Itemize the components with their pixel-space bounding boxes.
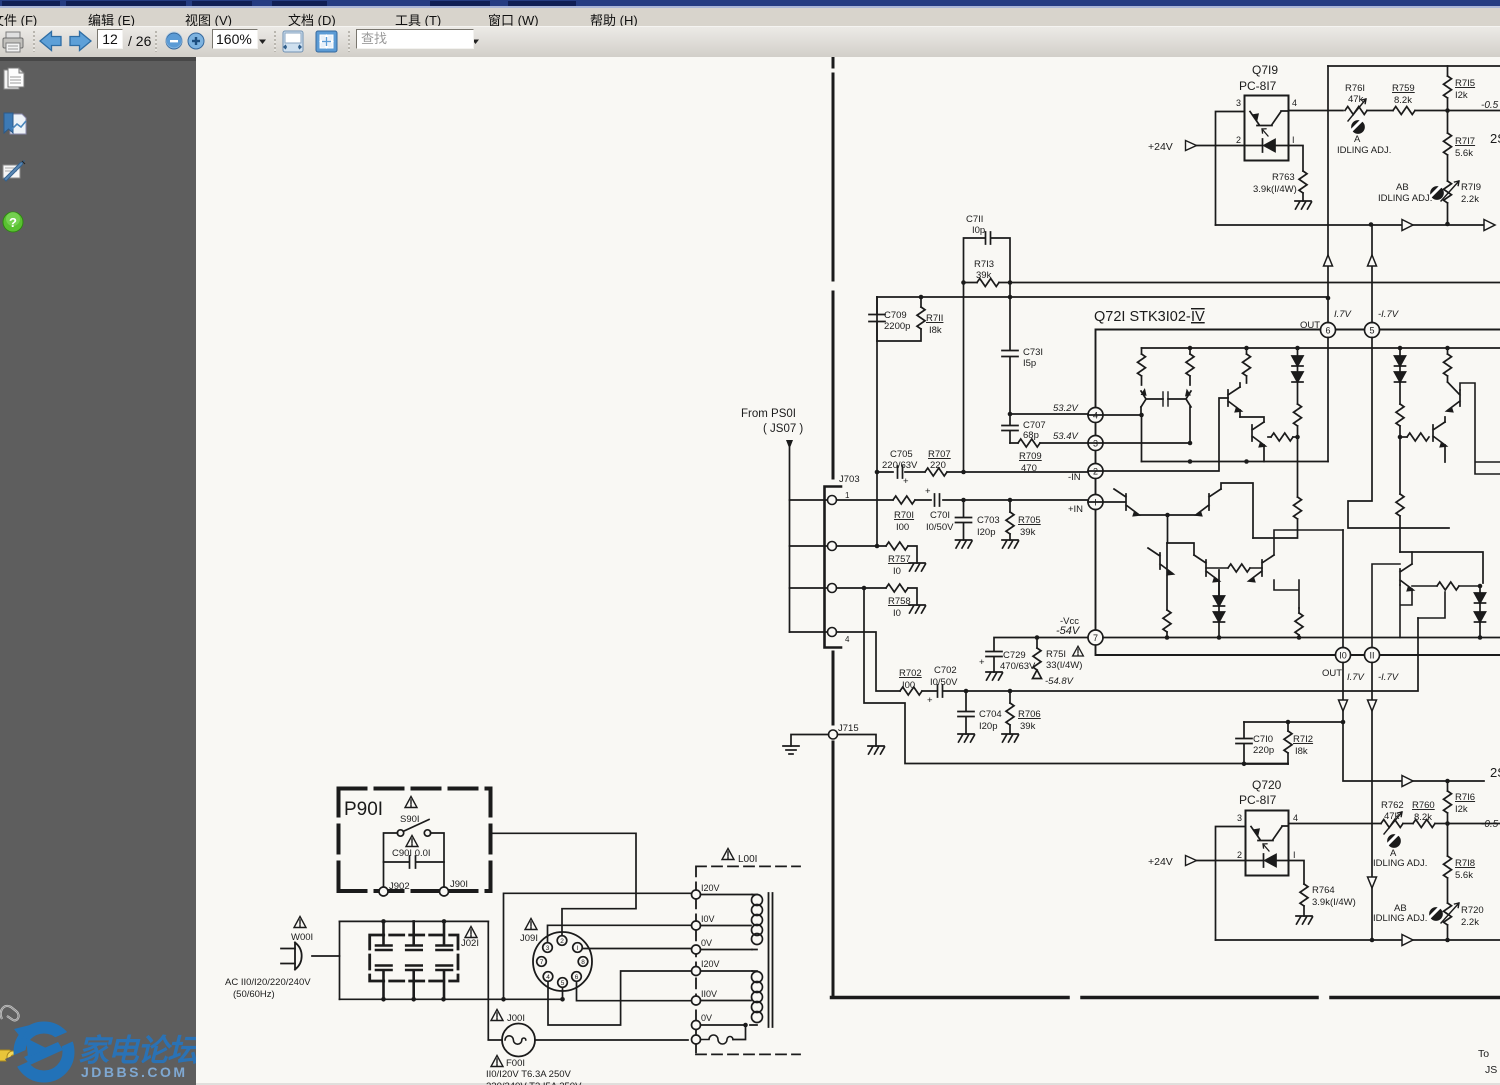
svg-text:OUT: OUT (1322, 668, 1342, 679)
svg-text:R7I8: R7I8 (1455, 858, 1475, 869)
svg-text:R757: R757 (888, 554, 911, 565)
node -Vcc label (1056, 616, 1081, 637)
svg-text:-I.7V: -I.7V (1378, 672, 1400, 683)
wire QJ collector to right edge (1460, 383, 1500, 474)
wire stub to J703-4 (790, 631, 828, 633)
svg-text:From PS0I: From PS0I (741, 408, 796, 420)
svg-text:R763: R763 (1272, 172, 1295, 183)
transistor internal QI (output right) (1249, 522, 1299, 608)
svg-text:I0/50V: I0/50V (926, 522, 954, 533)
wire J091-4 to 120V (548, 971, 692, 1025)
wire Q720 pin3 to left column (1216, 827, 1246, 941)
wire top V rail y66 (1328, 65, 1500, 67)
resistor internal R7 (bottom left) (1163, 610, 1171, 640)
svg-text:I0: I0 (893, 608, 901, 619)
resistor R712 (1284, 722, 1313, 764)
svg-text:家电论坛: 家电论坛 (78, 1033, 202, 1068)
wire switched live riser (491, 833, 637, 937)
resistor R760 (1412, 800, 1448, 828)
sidebar icon: pages (4, 68, 24, 89)
svg-text:2: 2 (560, 938, 564, 945)
svg-text:R762: R762 (1381, 800, 1404, 811)
junction at 1447.5,781 (1445, 779, 1450, 784)
connector P901 dashed box (339, 789, 491, 892)
svg-text:4: 4 (546, 974, 550, 981)
svg-text:53.4V: 53.4V (1053, 431, 1079, 442)
svg-text:5.6k: 5.6k (1455, 148, 1473, 159)
svg-text:C729: C729 (1003, 650, 1026, 661)
transistor internal QJ (1433, 382, 1460, 425)
sidebar icon: paperclip (1, 1006, 19, 1020)
prev page arrow (40, 32, 61, 51)
wire mirror bases/collectors (1088, 407, 1190, 443)
svg-text:R7I3: R7I3 (974, 259, 994, 270)
svg-text:C702: C702 (934, 665, 957, 676)
svg-text:R706: R706 (1018, 709, 1041, 720)
svg-text:C7I0: C7I0 (1253, 734, 1273, 745)
capacitor C901 (384, 848, 445, 868)
svg-text:+24V: +24V (1148, 856, 1173, 868)
junction at 1447.5,110.5 (1445, 108, 1450, 113)
junction at 921,297 (919, 295, 924, 300)
svg-text:I20V: I20V (701, 959, 720, 969)
svg-text:AC II0/I20/220/240V: AC II0/I20/220/240V (225, 977, 311, 988)
svg-text:I00: I00 (896, 522, 909, 533)
wire +24V into pin2 (1197, 145, 1263, 147)
node +24V (1148, 141, 1197, 154)
svg-text:Q72I STK3I02-: Q72I STK3I02- (1094, 309, 1191, 325)
capacitor C711 (964, 214, 1011, 282)
svg-text:I: I (1293, 850, 1296, 860)
resistor internal R1 (1138, 348, 1146, 385)
capacitor C710 (1236, 722, 1274, 764)
svg-text:R7I5: R7I5 (1455, 78, 1475, 89)
sidebar icon: bookmark/chart (4, 113, 26, 134)
pin 3 (1088, 436, 1103, 451)
pin 4 (1088, 408, 1103, 423)
svg-text:2S: 2S (1490, 765, 1500, 780)
svg-text:7: 7 (540, 959, 544, 966)
transistor internal QA (mirror left) (1141, 390, 1163, 407)
junction at 383.5,921.4 (381, 919, 386, 924)
capacitor filter cap 1 (376, 921, 392, 999)
wire cable from PS01 (789, 448, 791, 632)
junction at 1190,461.5 (1188, 459, 1193, 464)
svg-text:R75I: R75I (1046, 649, 1066, 660)
svg-text:39k: 39k (1020, 721, 1036, 732)
wire x1141 pin4 to OUT bus (1141, 415, 1143, 462)
svg-text:IDLING ADJ.: IDLING ADJ. (1373, 858, 1427, 869)
svg-text:J09I: J09I (520, 933, 538, 944)
svg-text:(50/60Hz): (50/60Hz) (233, 989, 275, 1000)
junction at 877,472 (875, 470, 880, 475)
wire filter bottom edge (340, 998, 564, 1000)
resistor R706 (1002, 691, 1041, 742)
svg-text:-0.5: -0.5 (1481, 819, 1499, 830)
wire top rail y297 (877, 296, 1010, 298)
wire R761 to R759 (1367, 110, 1393, 112)
svg-text:-I.7V: -I.7V (1378, 309, 1400, 320)
arrow below pin11 (1368, 700, 1377, 711)
resistor R716 (1444, 781, 1476, 824)
svg-text:2: 2 (1237, 850, 1242, 860)
resistor internal R8 (bottom mid) (1295, 608, 1303, 640)
capacitor C731 (1002, 347, 1043, 369)
wire y283 long to right (1010, 282, 1500, 284)
pin 5 (1365, 323, 1380, 338)
pin 6 (1321, 323, 1336, 338)
transistor Q720 labels (1239, 778, 1282, 807)
arrow below pin10 (1339, 700, 1348, 711)
svg-text:5: 5 (561, 980, 565, 987)
print icon (3, 32, 23, 52)
wire pin2 line to VAS base (1088, 398, 1228, 471)
wire pin6 internal column (1327, 338, 1329, 462)
junction at 1288,722 (1286, 720, 1291, 725)
svg-text:II0V: II0V (701, 989, 717, 999)
wire NFB staircase to right (864, 588, 1288, 764)
ground at J715 left (783, 746, 799, 754)
diode pair internal D5 D6 (1395, 346, 1406, 404)
svg-text:J90I: J90I (450, 879, 468, 890)
resistor R751 (1033, 638, 1084, 688)
fuse F001 labels (486, 1058, 582, 1085)
resistor internal R12 (base h) (1400, 433, 1433, 441)
JDBBS logo (0, 57, 220, 1085)
wire pin10 column down (1343, 663, 1484, 782)
svg-text:A: A (1354, 134, 1361, 145)
wire plug to filter (312, 955, 340, 957)
wire left vertical x877 (876, 297, 878, 546)
capacitor C703 (956, 500, 1000, 548)
wire R757 row (837, 546, 918, 563)
wire y552 link (1400, 552, 1483, 583)
resistor R718 (1444, 824, 1476, 904)
potentiometer R720 (1441, 903, 1484, 940)
left pane (0, 57, 196, 1085)
potentiometer R762 (1381, 800, 1404, 834)
transistor Q720 photo-transistor (1251, 826, 1289, 841)
svg-text:I20p: I20p (977, 527, 996, 538)
svg-text:39k: 39k (976, 270, 992, 281)
transistor internal QB (mirror right) (1163, 391, 1191, 407)
svg-text:470: 470 (1021, 463, 1037, 474)
svg-text:3.9k(I/4W): 3.9k(I/4W) (1312, 897, 1356, 908)
svg-text:I: I (1292, 135, 1295, 145)
resistor R759 (1392, 83, 1448, 115)
wire y223 bottom rail of Q719 (1216, 224, 1485, 226)
transistor Q719 photo-transistor (1250, 111, 1289, 126)
wire internal V+ rail (1142, 347, 1500, 349)
svg-text:I00: I00 (902, 680, 915, 691)
winding L001 primary (701, 895, 763, 950)
wire +IN row (837, 499, 1088, 501)
potentiometer R761 (1345, 83, 1367, 121)
resistor R713 (961, 259, 1012, 287)
svg-text:JS: JS (1485, 1064, 1497, 1076)
wire J715 left (791, 735, 829, 747)
warning S901 (405, 797, 417, 808)
resistor R715 (1444, 66, 1476, 111)
junction at 877,546 (875, 544, 880, 549)
capacitor filter cap 2 (406, 921, 422, 999)
wire C710 bracket top (1244, 721, 1343, 723)
wire diff right base up (1221, 480, 1253, 538)
svg-text:R702: R702 (899, 668, 922, 679)
svg-text:+IN: +IN (1068, 504, 1083, 515)
pin 10 (1336, 648, 1351, 663)
zoom out button (166, 33, 182, 49)
pin 7 (1088, 630, 1103, 645)
capacitor C707 (1002, 412, 1046, 443)
transistor internal QE (diff pair left) (1088, 480, 1139, 516)
svg-text:I20p: I20p (979, 721, 998, 732)
transistor internal QF (diff pair right) (1196, 489, 1221, 516)
svg-text:AB: AB (1396, 182, 1409, 193)
terminals (692, 890, 701, 899)
warning F001 (491, 1056, 503, 1067)
resistor R711 (877, 297, 943, 341)
resistor internal R11 (1444, 346, 1452, 382)
resistor R764 (1296, 884, 1356, 924)
wire y940 bottom rail (1216, 939, 1500, 941)
svg-text:220/240V T3.I5A 250V: 220/240V T3.I5A 250V (486, 1081, 582, 1085)
wire switch to J901 (431, 833, 445, 887)
svg-text:I2k: I2k (1455, 804, 1468, 815)
svg-text:PC-8I7: PC-8I7 (1239, 79, 1277, 93)
svg-text:39k: 39k (1020, 527, 1036, 538)
arrow on y225 rail (1402, 220, 1413, 231)
svg-text:( JS07 ): ( JS07 ) (763, 423, 803, 435)
svg-text:2200p: 2200p (884, 321, 910, 332)
svg-text:II0/I20V T6.3A 250V: II0/I20V T6.3A 250V (486, 1069, 572, 1080)
junction at 413.7,999.3 (411, 997, 416, 1002)
wire switch to J902 (384, 833, 398, 887)
svg-text:J02I: J02I (461, 938, 479, 949)
junction at 963.5,472 (961, 470, 966, 475)
fit width icon (283, 31, 303, 52)
svg-text:+: + (979, 657, 985, 668)
svg-text:I.7V: I.7V (1347, 672, 1366, 683)
capacitor C729 (979, 650, 1036, 680)
svg-text:J902: J902 (389, 881, 410, 892)
junction at 1010,297 (1008, 295, 1013, 300)
connector J091 (520, 919, 592, 992)
resistor R702 (899, 668, 922, 695)
svg-text:220: 220 (930, 460, 946, 471)
wire pin4 to R761 rail (1272, 111, 1289, 126)
diode pair internal D3 D4 (1214, 570, 1225, 640)
toolbar (0, 26, 1500, 58)
svg-text:I0: I0 (1339, 651, 1347, 661)
svg-text:3.9k(I/4W): 3.9k(I/4W) (1253, 184, 1297, 195)
junction at 963.5,500 (961, 498, 966, 503)
svg-text:220p: 220p (1253, 745, 1274, 756)
svg-text:IDLING ADJ.: IDLING ADJ. (1373, 913, 1427, 924)
pin 2 (1088, 464, 1103, 479)
wire output left connections (1167, 543, 1219, 596)
junction at 1343,722 (1341, 720, 1346, 725)
svg-text:3: 3 (1236, 98, 1241, 108)
wire stub to J703-1 (790, 499, 828, 501)
svg-text:220/63V: 220/63V (882, 460, 918, 471)
warning C901 (406, 836, 418, 847)
node From PS01 (741, 408, 803, 449)
svg-text:IV: IV (1191, 309, 1205, 325)
zoom in button (188, 33, 204, 49)
svg-text:R760: R760 (1412, 800, 1435, 811)
svg-text:I0/50V: I0/50V (930, 677, 958, 688)
svg-text:J703: J703 (839, 474, 860, 485)
wire J091-3 to 10V (548, 925, 692, 942)
sidebar icon: sign pen (3, 161, 25, 181)
svg-text:Q7I9: Q7I9 (1252, 63, 1278, 77)
wire filter top edge (340, 920, 489, 922)
fuse J001 (488, 1024, 691, 1057)
svg-text:II: II (1369, 651, 1374, 661)
junction at 1141.5,415 (1139, 413, 1144, 418)
svg-text:I5p: I5p (1023, 358, 1036, 369)
resistor R757 (886, 542, 926, 577)
wire from J703-4 (837, 632, 901, 691)
svg-text:R764: R764 (1312, 885, 1335, 896)
winding L001 secondary (701, 971, 763, 1025)
arrow on pin11 column lower (1368, 877, 1377, 888)
page split boundary dashed horizontal (832, 996, 1500, 1000)
junction at 1447.5,823.5 (1445, 821, 1450, 826)
svg-text:C709: C709 (884, 310, 907, 321)
transformer L001 (692, 849, 801, 1055)
connector J703 (825, 474, 860, 648)
diode Q720 LED (1263, 844, 1276, 867)
svg-text:+24V: +24V (1148, 141, 1173, 153)
transistor internal QL (output right) (1400, 552, 1413, 605)
svg-text:2: 2 (1236, 135, 1241, 145)
svg-text:IDLING ADJ.: IDLING ADJ. (1337, 145, 1391, 156)
svg-text:7: 7 (1093, 633, 1098, 643)
svg-text:I.7V: I.7V (1334, 309, 1353, 320)
wire R758 row (837, 588, 918, 605)
junction at 1190,443 (1188, 441, 1193, 446)
svg-text:0V: 0V (701, 938, 712, 948)
resistor R717 (1444, 111, 1476, 182)
transistor internal QH (output left) (1194, 548, 1219, 596)
connector J902 (379, 881, 410, 896)
junction at 1372,940 (1370, 938, 1375, 943)
svg-text:C704: C704 (979, 709, 1002, 720)
svg-text:I0: I0 (893, 566, 901, 577)
wire R762 to R760 (1403, 823, 1413, 825)
wire J091-6 to 110V (577, 981, 692, 1000)
svg-text:To: To (1478, 1048, 1489, 1060)
op-amp U Q721 label (1094, 309, 1205, 325)
menu bar (0, 8, 1500, 26)
node To JS text (1478, 1048, 1497, 1076)
node labels at pins (1053, 309, 1400, 683)
wire pin10 internal column (1342, 530, 1344, 648)
svg-text:33(I/4W): 33(I/4W) (1046, 660, 1082, 671)
wire pin5 column (1371, 226, 1373, 323)
adjuster AB for R720 (1373, 903, 1442, 924)
wire QL connections (1400, 552, 1412, 638)
resistor R763 (1253, 171, 1312, 209)
svg-text:+: + (903, 476, 909, 487)
junction at 966,691 (964, 689, 969, 694)
next page arrow (70, 32, 91, 51)
wire +24V into Q720 pin2 (1197, 860, 1264, 862)
junction at 1447.5,940 (1445, 938, 1450, 943)
svg-text:I0p: I0p (972, 225, 985, 236)
junction at 1244,763.8 (1242, 762, 1247, 767)
svg-text:C70I: C70I (930, 510, 950, 521)
wire y110 rail right (1448, 110, 1500, 112)
wire pin1 down to R763 (1275, 146, 1303, 172)
svg-text:R7I7: R7I7 (1455, 136, 1475, 147)
resistor R758 (886, 584, 926, 619)
svg-text:-54V: -54V (1056, 625, 1081, 637)
svg-text:C90I 0.0I: C90I 0.0I (392, 848, 431, 859)
resistor R701 (893, 496, 915, 533)
svg-text:I20V: I20V (701, 883, 720, 893)
optocoupler Q720 box (1246, 811, 1289, 876)
capacitor filter cap 3 (437, 921, 453, 999)
svg-text:53.2V: 53.2V (1053, 403, 1079, 414)
junction at 1447.5,224 (1445, 222, 1450, 227)
wire pin5 internal column (1348, 338, 1449, 529)
wire C710 bracket bottom to NFB (1244, 763, 1288, 765)
svg-text:I2k: I2k (1455, 90, 1468, 101)
wire tail to bottom resistor (1148, 543, 1168, 553)
svg-text:4: 4 (1293, 813, 1298, 823)
plug W001 (281, 943, 302, 970)
svg-text:R720: R720 (1461, 905, 1484, 916)
wire pin11 internal column (1372, 564, 1400, 648)
svg-text:-0.5: -0.5 (1481, 100, 1499, 111)
window title bar (0, 0, 1500, 7)
transistor internal QD (driver) (1240, 417, 1265, 462)
warning W001 (294, 917, 306, 928)
svg-text:1: 1 (845, 491, 850, 500)
wire fuse line (488, 1039, 688, 1041)
resistor internal R5 (VAS emitter) (1268, 433, 1298, 441)
wire x1400 lower chain (1399, 437, 1401, 494)
optocoupler Q719 box (1245, 96, 1289, 161)
pin labels Q720 (1237, 813, 1298, 860)
svg-text:4: 4 (1292, 98, 1297, 108)
diode Q719 LED (1262, 129, 1275, 152)
wire pin3 line (1088, 442, 1190, 444)
svg-text:47k: 47k (1348, 94, 1364, 105)
svg-text:F00I: F00I (506, 1058, 525, 1069)
connector J901 (440, 879, 468, 896)
wire pin6 column (1327, 66, 1329, 323)
resistor internal R14 (base h) (1400, 582, 1480, 590)
svg-text:8.2k: 8.2k (1414, 812, 1432, 823)
svg-text:P90I: P90I (344, 799, 383, 820)
adjuster A for R762 (1373, 835, 1427, 870)
wire internal V- rail (1103, 637, 1500, 639)
svg-text:R707: R707 (928, 449, 951, 460)
svg-text:C73I: C73I (1023, 347, 1043, 358)
svg-text:8.2k: 8.2k (1394, 95, 1412, 106)
wire -Vcc from pin7 (994, 638, 1088, 652)
svg-text:R7I9: R7I9 (1461, 182, 1481, 193)
wire pin3 to left column (1216, 112, 1245, 226)
capacitor C702 (922, 665, 958, 706)
wire x1418 top link (1418, 592, 1445, 618)
sidebar icon: yellow tools (0, 1050, 19, 1063)
svg-text:6: 6 (1325, 326, 1330, 336)
